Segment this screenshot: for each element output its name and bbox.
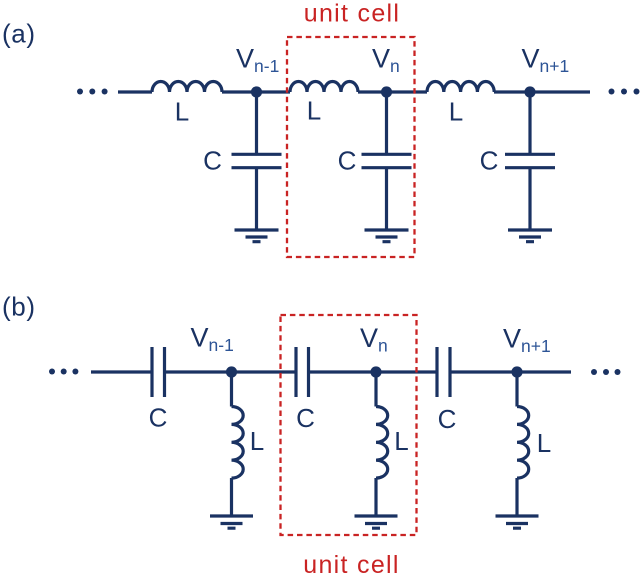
- inductor L (third, a): [427, 81, 494, 92]
- wire left lead (a): [118, 90, 152, 93]
- ellipsis dots left (a): [77, 89, 83, 95]
- svg-text:(a): (a): [2, 19, 36, 49]
- wire between L2 and L3 through node Vn (a): [358, 90, 427, 93]
- wire capacitor to ground (first, a): [255, 168, 258, 230]
- node Vn (b): [370, 366, 381, 377]
- shunt branch wire at Vn-1 (b): [230, 372, 233, 407]
- ground (unit cell, b): [355, 516, 398, 528]
- ground (first, b): [210, 516, 253, 528]
- wire inductor to ground (unit cell, b): [374, 478, 377, 516]
- shunt branch wire at Vn+1 (b): [515, 372, 518, 407]
- wire inductor to ground (third, b): [515, 478, 518, 516]
- ellipsis dots right (b): [591, 369, 597, 375]
- svg-text:L: L: [394, 426, 408, 456]
- ellipsis dots right (a): [609, 89, 615, 95]
- node Vn-1 (a): [251, 86, 262, 97]
- svg-text:C: C: [438, 404, 457, 434]
- ground (first, a): [235, 230, 279, 242]
- node Vn-1 (b): [226, 366, 237, 377]
- capacitor C (first, b) plates: [152, 347, 165, 397]
- wire cap2 to cap3 through node Vn (b): [309, 370, 438, 373]
- wire capacitor to ground (unit cell, a): [385, 168, 388, 230]
- svg-text:L: L: [175, 97, 189, 127]
- node Vn+1 (b): [511, 366, 522, 377]
- svg-text:L: L: [537, 428, 551, 458]
- svg-text:C: C: [203, 146, 222, 176]
- shunt branch wire at Vn (a): [385, 92, 388, 154]
- svg-text:L: L: [307, 96, 321, 126]
- wire between L1 and L2 through node Vn-1 (a): [222, 90, 290, 93]
- svg-text:L: L: [449, 97, 463, 127]
- inductor L (first, a): [152, 82, 222, 93]
- wire inductor to ground (first, b): [230, 478, 233, 516]
- svg-text:unit cell: unit cell: [304, 0, 400, 28]
- ellipsis dots left (b): [49, 369, 55, 375]
- wire cap1 to cap2 through node Vn-1 (b): [165, 370, 297, 373]
- svg-text:C: C: [338, 146, 357, 176]
- capacitor C (third, a) plates: [505, 154, 555, 167]
- inductor L (unit cell, a): [290, 82, 358, 93]
- wire left lead (b): [91, 370, 152, 373]
- ground (unit cell, a): [365, 230, 409, 242]
- node Vn+1 (a): [524, 86, 535, 97]
- svg-text:unit cell: unit cell: [303, 551, 399, 575]
- capacitor C (third, b) plates: [437, 347, 450, 397]
- capacitor C (unit cell, a) plates: [362, 154, 412, 167]
- wire capacitor to ground (third, a): [528, 168, 531, 230]
- wire right lead (a): [494, 90, 590, 93]
- ground (third, a): [508, 230, 552, 242]
- unit cell dashed box (b): [281, 315, 417, 535]
- inductor L (unit cell, b): [376, 407, 388, 479]
- node Vn (a): [381, 86, 392, 97]
- capacitor C (first, a) plates: [232, 154, 282, 167]
- shunt branch wire at Vn+1 (a): [528, 92, 531, 154]
- svg-text:C: C: [480, 146, 499, 176]
- shunt branch wire at Vn-1 (a): [255, 92, 258, 154]
- inductor L (first, b): [232, 407, 244, 479]
- ground (third, b): [496, 516, 539, 528]
- capacitor C (unit cell, b) plates: [296, 347, 309, 397]
- wire cap3 to right lead through node Vn+1 (b): [450, 370, 571, 373]
- shunt branch wire at Vn (b): [374, 372, 377, 407]
- svg-text:C: C: [296, 403, 315, 433]
- svg-text:L: L: [250, 426, 264, 456]
- svg-text:C: C: [149, 403, 168, 433]
- svg-text:(b): (b): [2, 292, 36, 322]
- inductor L (third, b): [517, 407, 529, 479]
- unit cell dashed box (a): [287, 37, 415, 257]
